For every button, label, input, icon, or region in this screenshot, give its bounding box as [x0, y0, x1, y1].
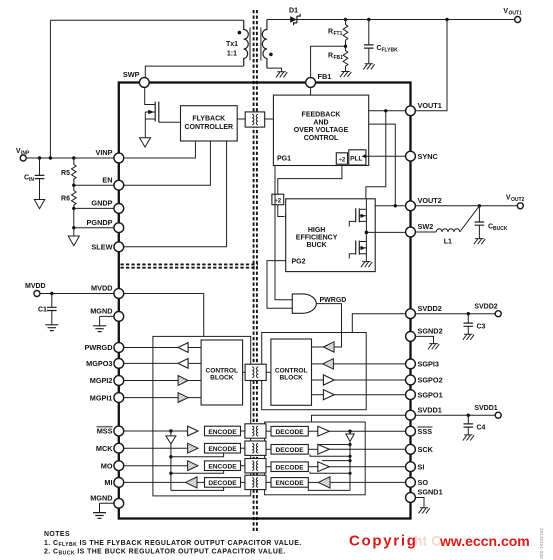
svg-text:MGPI1: MGPI1 [90, 393, 113, 402]
svg-text:SGPO2: SGPO2 [418, 376, 443, 385]
svg-text:EN: EN [102, 175, 112, 184]
wire control block to PWRGD buffer right [312, 346, 324, 348]
svg-text:D1: D1 [289, 8, 298, 15]
ground transformer secondary slanted [276, 72, 287, 78]
pin SGPO2 (right) [406, 375, 443, 385]
buffer MGPO3 out (left-pointing) [178, 359, 188, 369]
pin MGND (left) [90, 494, 123, 509]
wire MSS gate to MCK encode [171, 453, 224, 457]
wire SGPI3 to pin [333, 363, 405, 365]
wire VOUT1 riser [415, 20, 447, 111]
wire SSS gate to SCK buffer [318, 444, 350, 446]
svg-text:÷2: ÷2 [339, 157, 346, 163]
node RFT1 junction top [344, 18, 347, 21]
buffer MGPI2 in (right-pointing, hatched) [178, 376, 188, 386]
wire secondary output rail [267, 19, 515, 21]
capacitor CFLYBK [364, 20, 374, 64]
svg-text:SWP: SWP [123, 70, 140, 79]
wire control block to SGPO2 buffer [312, 379, 324, 381]
wire FB1 pin into feedback block [310, 87, 312, 95]
svg-text:BUCK: BUCK [493, 226, 508, 232]
svg-text:SGND1: SGND1 [418, 488, 443, 497]
svg-text:R: R [328, 53, 333, 60]
node VOUT1 riser junction [445, 18, 448, 21]
svg-text:DECODE: DECODE [208, 480, 237, 487]
op-amp U2 feedback and OV control box [273, 95, 368, 165]
notes text [44, 531, 302, 557]
wire SSS gate to SO encode [308, 487, 350, 490]
wire MVDD to control section [124, 294, 204, 337]
svg-text:PWRGD: PWRGD [320, 297, 347, 304]
divider block div2 bottom [272, 194, 284, 205]
pin EN (left) [102, 175, 123, 190]
wire coupler to ENCODE SO [266, 481, 271, 483]
svg-text:ht C: ht C [414, 533, 441, 549]
wire FB1 sense [311, 46, 346, 78]
wire PWRGD pin row [124, 347, 179, 349]
terminal MVDD [34, 291, 40, 297]
pin VOUT2 (right) [406, 196, 442, 211]
coupler feedback isolation transformer [245, 112, 265, 127]
wire coupler to right control block [266, 371, 271, 373]
wire PGNDP to ground [73, 228, 75, 236]
svg-text:NOTES: NOTES [44, 531, 70, 538]
wire VOUT1 from feedback block [369, 110, 406, 112]
wire buck input from VOUT1 [366, 111, 386, 200]
wire MGPI2 buffer to control block [188, 380, 201, 382]
wire SGPI3 row right [312, 363, 323, 365]
wire SSS gate to SCK decode [310, 454, 350, 456]
right GPIO section box [262, 333, 367, 410]
ground PGNDP open triangle [68, 236, 79, 246]
svg-text:ENCODE: ENCODE [208, 464, 237, 471]
pin SYNC (right) [406, 151, 439, 161]
node SSS gate tap SCK box [348, 455, 351, 458]
wire PG2 to AND gate [267, 261, 292, 309]
logic ENCODE MCK box [205, 443, 241, 453]
buffer SI (right-pointing) [318, 462, 330, 472]
node MSS gate tap MO [169, 472, 172, 475]
ground MGND bottom bars [93, 513, 106, 519]
buffer MSS sense (down-pointing) [166, 431, 176, 490]
wire EN row external [74, 184, 114, 186]
ground MGND top bars [93, 326, 106, 332]
pin SVDD1 (right) [406, 405, 442, 420]
watermark copyright [349, 533, 530, 550]
wire PWRGD buffer to control block [188, 347, 201, 349]
isolation barrier horizontal dashed lines [121, 264, 259, 267]
logic ENCODE MSS box [205, 426, 241, 436]
svg-text:SVDD1: SVDD1 [474, 405, 497, 412]
wire MO pin row [124, 465, 188, 467]
coupler SPI SS isolation transformer [245, 424, 266, 438]
node C1 junction [50, 292, 53, 295]
IC package outline [119, 83, 411, 519]
svg-text:FB1: FB1 [334, 55, 344, 61]
terminal SVDD1 [495, 412, 501, 418]
wire SGND1 external [415, 498, 424, 508]
terminal VOUT2 [517, 203, 523, 209]
wire SI to pin [329, 466, 406, 468]
node PGNDP junction [72, 226, 75, 229]
wire controller to VINP pin [124, 141, 196, 158]
buffer MO (right-pointing, hatched) [188, 461, 198, 471]
pin GNDP (left) [91, 199, 123, 214]
svg-text:1. CFLYBK IS THE FLYBACK REGUL: 1. CFLYBK IS THE FLYBACK REGULATOR OUTPU… [44, 540, 302, 548]
ground CBUCK slanted [474, 239, 485, 245]
logic DECODE SCK box [271, 445, 308, 455]
pin MCK (left) [96, 443, 124, 453]
node VOUT2 junction [394, 204, 397, 207]
ground buck low side slanted [361, 262, 372, 268]
pin MGPI2 (left) [90, 376, 124, 386]
svg-text:2. CBUCK IS THE BUCK REGULATOR: 2. CBUCK IS THE BUCK REGULATOR OUTPUT CA… [44, 548, 286, 556]
coupler SPI CK isolation transformer [245, 441, 266, 455]
buffer SGPO2 out (right-pointing) [323, 375, 334, 385]
svg-text:PGNDP: PGNDP [87, 218, 113, 227]
node MSS gate tap MCK [169, 455, 172, 458]
transistor Q2 buck high side [349, 200, 366, 233]
transformer core lines [250, 28, 261, 61]
resistor RFT1 [343, 20, 348, 47]
svg-text:MVDD: MVDD [91, 284, 113, 293]
PLL block [349, 150, 366, 165]
node CFLYBK junction [367, 18, 370, 21]
svg-text:SI: SI [418, 462, 425, 471]
ground SGND2 slanted [428, 344, 439, 350]
wire ENCODE MO to coupler [241, 465, 245, 467]
wire SWP to primary bottom [145, 66, 243, 78]
buffer SCK (right-pointing) [318, 444, 330, 454]
transistor Q3 buck low side [349, 232, 366, 261]
wire PGNDP row external [74, 227, 114, 229]
svg-text:SCK: SCK [418, 445, 434, 454]
svg-text:MSS: MSS [97, 427, 113, 436]
svg-text:OUT2: OUT2 [511, 197, 525, 203]
svg-text:1:1: 1:1 [227, 51, 237, 58]
pin SO (right) [406, 478, 429, 488]
svg-text:CONTROL: CONTROL [304, 135, 339, 142]
transistor Q1 flyback switch [145, 87, 181, 138]
terminal SVDD2 [495, 311, 501, 317]
wire coupler to DECODE SSS [266, 430, 271, 432]
svg-text:MI: MI [104, 478, 112, 487]
svg-text:ww.eccn.com: ww.eccn.com [439, 533, 530, 549]
svg-text:SSS: SSS [418, 427, 433, 436]
wire VINP rail riser [49, 20, 51, 158]
pin MSS (left) [97, 426, 124, 436]
wire L1 to VOUT2 node diagonal [460, 206, 480, 232]
svg-text:FB1: FB1 [318, 72, 332, 81]
op-amp U1 flyback controller box [181, 106, 238, 141]
pin SVDD2 (right) [406, 304, 442, 319]
op-amp U3 high efficiency buck box [286, 199, 376, 272]
svg-text:PG2: PG2 [292, 259, 306, 266]
control block right box [271, 339, 312, 405]
wire MCK pin row [124, 447, 188, 449]
svg-text:SYNC: SYNC [418, 152, 439, 161]
terminal VOUT1 [515, 17, 521, 23]
svg-text:R5: R5 [61, 170, 70, 177]
resistor RFB1 [343, 46, 348, 71]
wire DECODE SCK to buffer [308, 448, 318, 450]
wire SVDD1 to SPI section [312, 415, 406, 422]
node SSS gate tap SI enable [348, 459, 351, 462]
svg-text:FT1: FT1 [334, 31, 343, 37]
svg-text:SGPO1: SGPO1 [418, 390, 443, 399]
node C3 junction [467, 312, 470, 315]
pin SGPO1 (right) [406, 390, 443, 400]
pin VOUT1 (right) [406, 101, 442, 116]
node EN junction [72, 184, 75, 187]
svg-text:OUT1: OUT1 [509, 11, 523, 17]
buffer MSS (right-pointing) [188, 426, 198, 436]
wire SGPO1 to pin [334, 394, 406, 396]
svg-text:FLYBK: FLYBK [382, 48, 399, 54]
isolation barrier vertical dashed lines [254, 10, 257, 531]
wire SO to pin [330, 481, 406, 483]
svg-text:MGPI2: MGPI2 [90, 376, 113, 385]
control block left box [201, 340, 243, 405]
svg-text:SVDD2: SVDD2 [474, 304, 497, 311]
ground SGND1 slanted [419, 508, 430, 514]
logic DECODE SI box [271, 462, 308, 472]
svg-text:PWRGD: PWRGD [85, 343, 113, 352]
svg-text:VOUT2: VOUT2 [418, 196, 442, 205]
wire controller to coupler [237, 118, 245, 120]
coupler SPI MOSI isolation transformer [245, 459, 266, 473]
capacitor C3 [464, 314, 474, 335]
wire SCK to pin [329, 448, 406, 450]
svg-text:IN: IN [29, 177, 34, 183]
buffer SSS sense (down-pointing) [346, 431, 354, 490]
node GNDP junction [72, 207, 75, 210]
pin SLEW (left) [91, 242, 123, 252]
svg-text:VOUT1: VOUT1 [418, 101, 442, 110]
wire MGPO3 buffer to control block [188, 362, 201, 364]
node arrow into buck [285, 214, 290, 219]
logic ENCODE SO box [271, 478, 308, 488]
pin SGND2 (right) [406, 327, 443, 342]
terminal VINP [20, 155, 26, 161]
resistor R5 [72, 158, 77, 185]
svg-text:SGND2: SGND2 [418, 327, 443, 336]
svg-text:ENCODE: ENCODE [208, 429, 237, 436]
wire secondary bottom to ground [267, 68, 282, 72]
wire controller to EN pin [124, 141, 211, 185]
wire MGPI2 pin row [124, 380, 179, 382]
pin PGNDP (left) [87, 218, 124, 233]
svg-text:C1: C1 [38, 307, 47, 314]
transformer Tx1 primary winding [244, 20, 249, 66]
buffer MCK (right-pointing, hatched) [188, 443, 198, 453]
node RFT1/RFB1 junction [344, 45, 347, 48]
pin SI (right) [406, 462, 425, 472]
pin MGPO3 (left) [86, 359, 124, 369]
pin MO (left) [101, 461, 124, 471]
wire VINP input row [26, 157, 114, 159]
buffer MI (left-pointing, hatched) [186, 477, 198, 488]
pin VINP (left) [95, 148, 123, 163]
svg-text:DECODE: DECODE [275, 447, 304, 454]
pin SGPI3 (right) [406, 359, 439, 369]
capacitor CBUCK [475, 206, 485, 239]
svg-text:÷2: ÷2 [274, 198, 281, 204]
svg-text:C4: C4 [477, 425, 486, 432]
svg-text:MVDD: MVDD [25, 283, 46, 290]
capacitor C4 [464, 415, 474, 435]
transformer Tx1 secondary winding [262, 20, 267, 69]
pin PWRGD (left) [85, 343, 124, 353]
svg-text:HIGH: HIGH [308, 227, 326, 234]
svg-text:FEEDBACK: FEEDBACK [302, 112, 341, 119]
node VINP riser junction [49, 156, 52, 159]
svg-text:SGPI3: SGPI3 [418, 360, 440, 369]
svg-text:SVDD1: SVDD1 [418, 405, 442, 414]
svg-text:INP: INP [21, 151, 30, 157]
buffer SGPO1 out (right-pointing) [323, 390, 334, 400]
wire MI pin row [124, 481, 186, 483]
divider block div2 top [336, 153, 347, 164]
svg-text:C3: C3 [477, 324, 486, 331]
wire ENCODE MCK to coupler [241, 447, 245, 449]
node MSS junction [169, 429, 172, 432]
capacitor CIN [35, 158, 45, 200]
svg-text:MGND: MGND [90, 307, 112, 316]
pin MGND (left) [90, 307, 123, 322]
svg-text:Copyrig: Copyrig [349, 533, 418, 550]
svg-text:R: R [328, 29, 333, 36]
wire MVDD row external [40, 293, 115, 295]
svg-text:DECODE: DECODE [275, 429, 304, 436]
node SW2 junction [365, 231, 369, 235]
svg-text:AND: AND [313, 119, 328, 126]
wire div2 chain to buck [278, 164, 342, 194]
buffer PWRGD out (left-pointing) [178, 343, 188, 353]
svg-text:ENCODE: ENCODE [208, 446, 237, 453]
node SSS gate tap SCK enable [348, 443, 351, 446]
wire MGND bottom external [100, 503, 115, 512]
wire controller to SLEW pin [124, 141, 227, 247]
svg-text:GNDP: GNDP [91, 199, 112, 208]
svg-text:VINP: VINP [95, 148, 112, 157]
svg-text:SW2: SW2 [418, 222, 434, 231]
wire control block to SGPO1 buffer [312, 394, 324, 396]
svg-text:PLL: PLL [350, 155, 362, 162]
wire DECODE SSS to buffer [308, 430, 318, 432]
svg-text:L1: L1 [444, 239, 452, 246]
wire ENCODE MSS to coupler [241, 430, 245, 432]
ground C4 slanted [463, 435, 474, 441]
wire coupler to feedback block [265, 118, 274, 120]
wire MGPO3 pin row [124, 362, 179, 364]
wire VOUT2 row external [415, 205, 517, 207]
svg-text:Tx1: Tx1 [226, 41, 238, 48]
pin SWP (top) [123, 70, 149, 88]
buffer SO (left-pointing, hatched) [318, 477, 330, 488]
phase dot primary [238, 31, 242, 35]
pin MVDD (left) [91, 284, 124, 299]
svg-text:MGPO3: MGPO3 [86, 359, 112, 368]
inductor L1 [436, 229, 460, 232]
wire MGPI1 pin row [124, 397, 179, 399]
wire SSS to pin [329, 430, 406, 432]
svg-text:20131101-040: 20131101-040 [538, 528, 544, 559]
wire MGPI1 buffer to control block [188, 397, 201, 399]
ground CIN open triangle [34, 200, 44, 209]
wire SVDD2 row external [415, 313, 495, 315]
resistor R6 [72, 185, 77, 208]
wire MSS gate to MI decode [171, 487, 224, 490]
buffer PWRGD right (left-pointing, hatched) [323, 342, 334, 352]
wire PG1 to AND gate [275, 166, 292, 300]
svg-text:BUCK: BUCK [306, 242, 326, 249]
svg-text:BLOCK: BLOCK [279, 374, 303, 381]
svg-text:BLOCK: BLOCK [210, 374, 234, 381]
AND gate PWRGD [292, 294, 316, 313]
buffer MGPI1 in (right-pointing, hatched) [178, 393, 188, 403]
svg-text:FLYBACK: FLYBACK [192, 116, 225, 123]
buffer SSS (right-pointing) [318, 426, 330, 436]
wire MSS pin row [124, 430, 188, 432]
node C4 junction [467, 414, 470, 417]
logic DECODE SSS box [271, 426, 308, 436]
node R5 top junction [72, 156, 75, 159]
node CBUCK junction [478, 204, 481, 207]
pin FB1 (top) [306, 72, 332, 88]
ground Q1 source open triangle [140, 138, 151, 147]
ground C3 slanted [463, 334, 474, 340]
pin SGND1 (right) [406, 488, 443, 503]
capacitor C1 [47, 294, 57, 325]
wire SYNC to PLL [366, 155, 406, 157]
wire SVDD2 to GPIO section [352, 314, 406, 333]
wire GNDP to PGNDP [73, 208, 75, 227]
right SPI section box [265, 422, 366, 495]
diode D1 schottky [290, 14, 300, 25]
svg-text:MCK: MCK [96, 444, 113, 453]
wire div2 to buck input [278, 205, 285, 217]
svg-text:ENCODE: ENCODE [275, 480, 304, 487]
wire SVDD1 row external [415, 414, 495, 416]
node VOUT1 branch junction [384, 109, 387, 112]
wire coupler to DECODE SCK [266, 448, 271, 450]
svg-text:CONTROLLER: CONTROLLER [184, 124, 233, 131]
svg-text:SVDD2: SVDD2 [418, 304, 442, 313]
wire VOUT2 from buck [375, 205, 406, 207]
wire SGND2 external [415, 336, 433, 343]
wire SW2 from buck [366, 231, 405, 233]
ground RFB1 slanted [340, 72, 351, 78]
svg-text:SO: SO [418, 478, 429, 487]
wire coupler to DECODE SI [266, 466, 271, 468]
coupler GPIO isolation transformer [245, 364, 266, 380]
svg-text:DECODE: DECODE [275, 465, 304, 472]
wire SGPO2 to pin [334, 379, 406, 381]
svg-text:MGND: MGND [90, 494, 112, 503]
pin MGPI1 (left) [90, 393, 124, 403]
wire MGND top external [100, 316, 115, 325]
node VINP/CIN junction [38, 156, 41, 159]
buffer SGPI3 in (left-pointing, hatched) [323, 359, 334, 369]
left isolator section box [153, 336, 251, 496]
coupler SPI MISO isolation transformer [245, 475, 266, 489]
logic DECODE MI box [205, 478, 241, 488]
pin SW2 (right) [406, 222, 434, 237]
wire SSS gate to SI decode [310, 472, 350, 474]
svg-text:SLEW: SLEW [91, 243, 112, 252]
wire left control block to coupler [243, 371, 246, 373]
